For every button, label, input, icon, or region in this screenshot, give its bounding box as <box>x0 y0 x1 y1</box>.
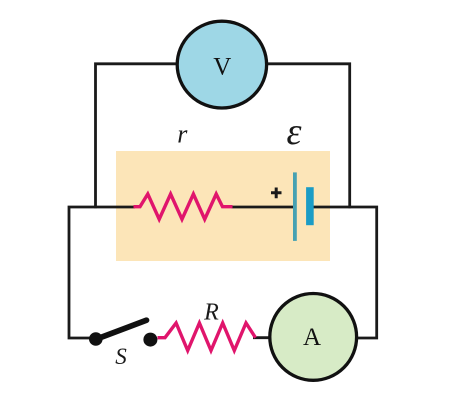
battery long thin plate (positive) <box>293 172 297 241</box>
wire: top-right segment + right vertical of voltmeter loop <box>268 64 350 209</box>
svg-text:r: r <box>177 120 188 149</box>
wire: middle row left + outer-left vertical + bottom-left stub <box>69 207 135 338</box>
battery short thick plate (negative) <box>306 187 314 225</box>
voltmeter V circle <box>177 21 266 108</box>
emf source shaded box <box>116 151 330 261</box>
svg-text:S: S <box>115 344 127 369</box>
ammeter A circle <box>270 294 357 381</box>
wire: resistor R to ammeter stub <box>253 336 270 339</box>
battery plus sign <box>271 188 282 199</box>
svg-text:ε: ε <box>287 111 302 153</box>
svg-text:R: R <box>203 300 219 326</box>
switch S lever arm <box>94 320 147 340</box>
switch S left contact dot <box>89 332 103 346</box>
resistor r (internal resistance) zigzag <box>134 194 233 219</box>
wire: between internal resistor r and battery plate <box>232 206 295 209</box>
resistor R zigzag <box>158 323 256 351</box>
svg-text:V: V <box>213 54 231 81</box>
svg-text:A: A <box>303 324 321 351</box>
switch S right contact dot <box>143 333 157 347</box>
wire: top-left segment + left vertical of voltmeter loop <box>96 64 178 209</box>
wire: battery to outer-right vertical + down to ammeter <box>312 207 377 338</box>
